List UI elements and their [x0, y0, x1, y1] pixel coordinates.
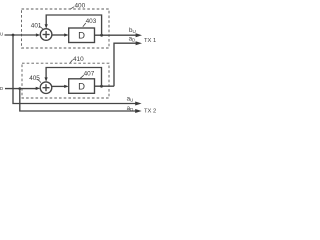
wire: b_D from unit 410 up to TX1: [114, 43, 136, 86]
block D 403: [69, 28, 95, 43]
svg-text:401: 401: [31, 22, 42, 29]
adder U2 (405): [40, 82, 52, 94]
wire: block 403 output: [95, 34, 137, 36]
dashed box 400: [22, 9, 110, 48]
arrowhead TX2 line 1: [135, 102, 141, 106]
arrowhead b_D: [136, 41, 142, 45]
svg-text:aD: aD: [127, 105, 134, 112]
wire: feedback loop 400: [46, 15, 101, 35]
arrow into adder 405 top: [45, 77, 48, 81]
svg-text:aD: aD: [129, 35, 136, 42]
svg-text:407: 407: [84, 70, 95, 77]
leader line 403: [83, 23, 86, 27]
arrowhead TX2 line 2: [135, 109, 141, 113]
leader line 407: [80, 75, 84, 78]
leader line 410: [70, 60, 72, 63]
svg-text:410: 410: [73, 56, 84, 63]
arrowhead b_U: [136, 33, 142, 37]
dashed box 410: [22, 63, 109, 98]
leader line 400: [70, 7, 74, 9]
wire: a_D down to TX2: [20, 89, 136, 111]
wire: adder to block 403: [52, 34, 65, 36]
adder U1 (401): [40, 29, 52, 41]
wire: adder to block 407: [52, 85, 65, 87]
svg-text:405: 405: [29, 75, 40, 82]
wire: a_U down to TX2: [13, 35, 136, 104]
node: output U junction: [100, 34, 103, 37]
svg-text:aD: aD: [0, 84, 4, 91]
node: input D junction: [18, 87, 21, 90]
node: output D junction: [100, 85, 103, 88]
arrow into adder 401 top: [45, 24, 48, 28]
node: input U junction: [12, 34, 15, 37]
leader line 405: [37, 79, 41, 82]
wire: block 407 output: [95, 85, 115, 87]
svg-text:TX 1: TX 1: [144, 38, 156, 44]
svg-text:aU: aU: [0, 30, 3, 37]
wire: input a_U: [5, 34, 38, 36]
svg-text:D: D: [78, 31, 85, 42]
svg-text:D: D: [78, 82, 85, 93]
block D 407: [69, 79, 95, 94]
leader line 401: [39, 26, 43, 30]
svg-text:TX 2: TX 2: [144, 108, 156, 114]
svg-text:403: 403: [86, 18, 97, 25]
svg-text:bU: bU: [129, 27, 136, 34]
wire: input a_D: [5, 88, 37, 90]
wire: feedback loop 410: [46, 68, 101, 87]
svg-text:400: 400: [75, 2, 86, 9]
arrow into adder 401: [36, 33, 41, 36]
svg-text:aU: aU: [127, 95, 134, 102]
